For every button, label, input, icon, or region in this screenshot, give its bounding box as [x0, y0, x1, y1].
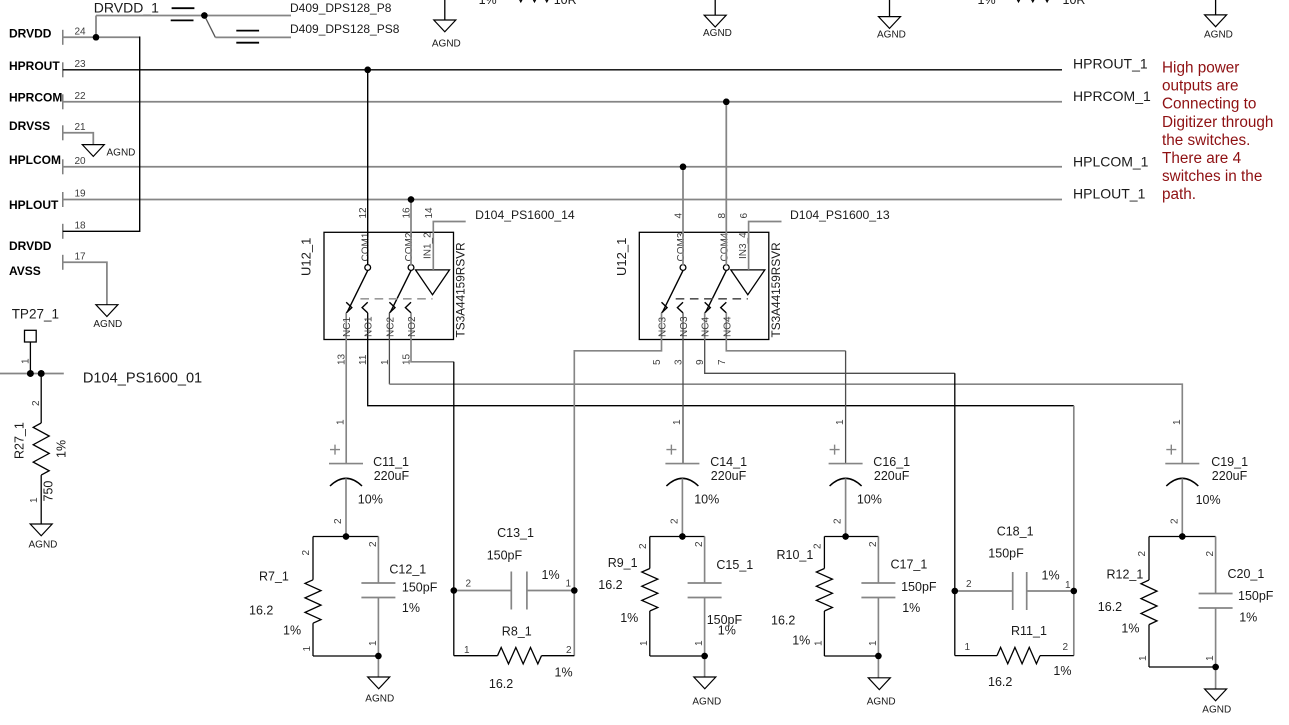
inner pin wires [345, 313, 347, 340]
junction C17_1 bottom [875, 653, 882, 660]
svg-text:TS3A44159RSVR: TS3A44159RSVR [769, 242, 783, 337]
control buffer triangle IN3_4 [731, 270, 765, 295]
svg-text:D104_PS1600_14: D104_PS1600_14 [475, 208, 575, 222]
U12_1 body outline [324, 232, 454, 339]
svg-text:2: 2 [868, 541, 879, 547]
ground AGND top 3 [877, 17, 906, 41]
svg-text:1: 1 [336, 419, 347, 425]
wire bottom rail group1 [313, 655, 378, 657]
wire NC3 vertical lower segment [573, 591, 575, 656]
svg-text:1: 1 [302, 646, 313, 652]
svg-text:1%: 1% [902, 601, 920, 615]
junction pin24/DRVDD_1 [93, 34, 100, 41]
svg-text:10%: 10% [857, 493, 882, 507]
ground AGND below C17_1 [867, 678, 896, 708]
svg-text:2: 2 [368, 541, 379, 547]
resistor R11_1 (16.2 1%) [955, 624, 1074, 689]
svg-text:AGND: AGND [1202, 705, 1231, 716]
svg-text:R12_1: R12_1 [1107, 568, 1144, 582]
svg-text:2: 2 [1137, 551, 1148, 557]
junction C13_1 pin1 [571, 587, 578, 594]
pin 17 AVSS of left IC [9, 252, 86, 279]
svg-text:1: 1 [1138, 655, 1149, 661]
wire NO2 vertical drop [453, 362, 455, 591]
svg-text:150pF: 150pF [901, 580, 937, 594]
capacitor C14_1 (220uF polarized) [665, 419, 747, 537]
svg-text:23: 23 [75, 59, 87, 70]
svg-text:DRVDD: DRVDD [9, 239, 52, 253]
svg-text:Digitizer through: Digitizer through [1162, 114, 1273, 131]
junction C20_1 bottom [1212, 664, 1219, 671]
wire NC3 to C13/R8 right [574, 340, 661, 591]
svg-text:1: 1 [368, 640, 379, 646]
svg-text:NC3: NC3 [658, 317, 669, 337]
svg-text:TS3A44159RSVR: TS3A44159RSVR [454, 242, 468, 337]
svg-text:HPRCOM: HPRCOM [9, 91, 62, 105]
svg-text:HPROUT: HPROUT [9, 59, 60, 73]
wire HPLCOM to COM3 [682, 167, 684, 265]
svg-text:2: 2 [638, 543, 649, 549]
svg-text:D409_DPS128_P8: D409_DPS128_P8 [290, 1, 392, 15]
capacitor C18_1 (150pF 1%) [955, 525, 1074, 611]
wire to D409_DPS128_P8 [204, 15, 291, 17]
resistor R27_1 [13, 374, 69, 525]
svg-text:2: 2 [1063, 642, 1069, 653]
svg-text:1: 1 [1172, 419, 1183, 425]
resistor R7_1 (16.2 1%) [249, 537, 321, 657]
svg-text:150pF: 150pF [487, 549, 523, 563]
wire to ground below C12_1 [377, 656, 379, 677]
contact arrows NC1/NO1/NC2/NO2 [346, 302, 352, 313]
capacitor C15_1 (150pF 1%) [688, 537, 754, 657]
svg-text:1%: 1% [542, 568, 560, 582]
net-tie bars on DRVDD_1 branch P8 [172, 7, 195, 9]
wire IN1_2 to D104_PS1600_14 [433, 222, 465, 270]
svg-text:220uF: 220uF [711, 469, 747, 483]
svg-text:AGND: AGND [365, 694, 394, 705]
ground AGND below R27_1 [29, 524, 58, 551]
svg-text:2: 2 [812, 543, 823, 549]
svg-text:DRVSS: DRVSS [9, 119, 50, 133]
ground AGND below C20_1 [1202, 689, 1231, 716]
svg-text:U12_1: U12_1 [299, 238, 314, 276]
pin 24 stub wire [63, 36, 96, 38]
svg-text:1%: 1% [479, 0, 497, 7]
junction HPRCOM/COM4 [723, 99, 730, 106]
svg-text:1%: 1% [978, 0, 996, 7]
wire D104_PS1600_01 from left edge [0, 373, 64, 375]
svg-text:HPLCOM_1: HPLCOM_1 [1073, 153, 1149, 169]
svg-text:HPRCOM_1: HPRCOM_1 [1073, 88, 1151, 104]
junction DRVDD_1 split [201, 12, 208, 19]
svg-text:7: 7 [717, 359, 728, 365]
svg-text:C16_1: C16_1 [873, 455, 910, 469]
svg-text:1: 1 [672, 419, 683, 425]
svg-text:D104_PS1600_13: D104_PS1600_13 [790, 208, 890, 222]
wire NO4 to C16_1 [726, 340, 845, 351]
wire rail of C16_1 group [824, 536, 878, 538]
capacitor C19_1 (220uF polarized) [1165, 419, 1248, 537]
wire NC1 to C11_1 [345, 340, 347, 464]
svg-text:16.2: 16.2 [489, 677, 513, 691]
svg-text:Connecting to: Connecting to [1162, 96, 1256, 113]
svg-text:AGND: AGND [93, 319, 122, 330]
wire pin21 DRVSS stub to ground [63, 133, 94, 145]
svg-text:C11_1: C11_1 [373, 455, 409, 469]
svg-text:NC1: NC1 [342, 317, 353, 337]
switch blade COM4 [706, 271, 727, 313]
svg-text:1: 1 [1065, 580, 1071, 591]
wire bottom rail group2 [650, 655, 705, 657]
svg-text:AGND: AGND [703, 28, 732, 39]
junction HPROUT/COM1 [364, 67, 371, 74]
svg-text:NO3: NO3 [679, 316, 690, 337]
svg-text:17: 17 [75, 252, 87, 263]
svg-text:1: 1 [639, 640, 650, 646]
dashed control link [676, 298, 748, 300]
wire bottom rail group4 [1149, 666, 1216, 668]
svg-text:14: 14 [424, 207, 435, 219]
wire HPLCOM net line pin20 to right edge [63, 166, 1062, 168]
capacitor C20_1 (150pF 1%) [1199, 537, 1274, 668]
dashed control link [360, 298, 432, 300]
capacitor C17_1 (150pF 1%) [861, 537, 937, 657]
svg-text:1%: 1% [620, 611, 638, 625]
wire to AGND top 4 [1215, 0, 1217, 15]
svg-text:AGND: AGND [29, 540, 58, 551]
svg-text:NO1: NO1 [364, 316, 375, 337]
svg-text:HPLCOM: HPLCOM [9, 153, 61, 167]
svg-text:2: 2 [31, 400, 42, 406]
pin 23 HPROUT of left IC [9, 59, 86, 77]
wire DRVDD_1 horizontal [96, 15, 204, 17]
svg-text:HPLOUT_1: HPLOUT_1 [1073, 186, 1146, 202]
wire to AGND top 2 [714, 0, 716, 15]
svg-text:C12_1: C12_1 [389, 563, 426, 577]
resistor top-right partial (1% / 10R) [978, 0, 1086, 7]
capacitor C16_1 (220uF polarized) [829, 419, 911, 537]
svg-text:AVSS: AVSS [9, 264, 41, 278]
wire to ground below C15_1 [704, 656, 706, 677]
svg-text:1%: 1% [555, 666, 573, 680]
ground AGND below C15_1 [692, 677, 721, 708]
svg-text:AGND: AGND [692, 697, 721, 708]
pin 19 HPLOUT of left IC [9, 189, 86, 212]
svg-text:5: 5 [652, 359, 663, 365]
junction R27_1 [38, 370, 45, 377]
svg-text:D409_DPS128_PS8: D409_DPS128_PS8 [290, 22, 400, 36]
svg-text:1%: 1% [55, 440, 69, 458]
capacitor C13_1 (150pF 1%) [454, 526, 575, 610]
svg-text:COM4: COM4 [719, 232, 730, 261]
svg-text:2: 2 [966, 579, 972, 590]
wire NC4 vertical drop [954, 373, 956, 591]
svg-text:1%: 1% [1042, 569, 1060, 583]
svg-text:COM1: COM1 [361, 232, 372, 261]
annotation red note [1162, 59, 1273, 203]
control buffer triangle IN1_2 [416, 270, 450, 295]
ground AGND below AVSS [93, 305, 122, 330]
svg-text:220uF: 220uF [1212, 469, 1248, 483]
capacitor C12_1 (150pF 1%) [361, 537, 437, 657]
svg-text:2: 2 [669, 518, 680, 524]
wire HPLOUT to COM2 [410, 200, 412, 266]
wire rail group4 [1149, 536, 1216, 538]
svg-text:16.2: 16.2 [1098, 600, 1122, 614]
wire to AGND top 1 [444, 0, 446, 20]
wire HPROUT net line pin23 to right edge [63, 69, 1062, 71]
wire NC4 to C18/R11 left [705, 340, 955, 374]
svg-text:1%: 1% [283, 624, 301, 638]
U12_1 body outline [639, 232, 769, 339]
svg-text:1: 1 [1205, 655, 1216, 661]
wire NO1 to C18/R11 right [368, 340, 1074, 406]
svg-text:R10_1: R10_1 [777, 548, 814, 562]
svg-text:1: 1 [868, 640, 879, 646]
svg-text:2: 2 [301, 550, 312, 556]
svg-text:There are 4: There are 4 [1162, 150, 1242, 167]
svg-text:C20_1: C20_1 [1228, 567, 1265, 581]
svg-text:16.2: 16.2 [598, 578, 622, 592]
wire DRVDD_1 vertical to pin24 [95, 16, 97, 38]
junction HPLCOM/COM3 [680, 164, 687, 171]
wire TP27_1 to net [29, 342, 31, 374]
svg-text:AGND: AGND [1204, 30, 1233, 41]
svg-text:10R: 10R [1063, 0, 1086, 7]
wire NO2 to C13/R8 left [411, 340, 454, 362]
junction C19_1 to rail [1179, 533, 1186, 540]
svg-text:IN3_4: IN3_4 [738, 232, 749, 259]
switch blade COM1 [347, 271, 368, 313]
wire to ground below C17_1 [877, 656, 879, 678]
resistor R9_1 (16.2 1%) [598, 537, 658, 657]
svg-text:6: 6 [739, 213, 750, 219]
svg-text:COM2: COM2 [404, 232, 415, 261]
svg-text:1: 1 [965, 642, 971, 653]
svg-text:COM3: COM3 [676, 232, 687, 261]
junction C14_1 to rail [679, 533, 686, 540]
svg-text:1%: 1% [1121, 622, 1139, 636]
wire NO3 to C14_1 [682, 340, 684, 464]
wire NC2 to C19_1 [388, 340, 390, 385]
junction C13_1 pin2 [451, 587, 458, 594]
svg-text:16.2: 16.2 [771, 614, 795, 628]
svg-text:R9_1: R9_1 [608, 556, 638, 570]
svg-text:150pF: 150pF [988, 547, 1024, 561]
svg-text:C13_1: C13_1 [497, 526, 534, 540]
svg-text:750: 750 [42, 481, 56, 502]
svg-text:High power: High power [1162, 59, 1239, 76]
net-tie bars on DRVDD_1 branch PS8 [236, 30, 259, 32]
svg-text:C18_1: C18_1 [997, 525, 1034, 539]
svg-text:C19_1: C19_1 [1211, 455, 1248, 469]
svg-text:150pF: 150pF [1238, 589, 1274, 603]
wire diagonal to PS8 branch [204, 16, 215, 38]
svg-text:16.2: 16.2 [249, 604, 273, 618]
wire HPRCOM to COM4 [725, 102, 727, 265]
pin 22 HPRCOM of left IC [9, 91, 86, 110]
svg-text:R7_1: R7_1 [259, 569, 289, 583]
resistor R10_1 (16.2 1%) [771, 537, 832, 657]
svg-text:path.: path. [1162, 186, 1196, 203]
switch blade COM2 [390, 271, 411, 313]
junction C11_1 to rail [343, 533, 350, 540]
wire NC4 vertical lower segment [954, 591, 956, 656]
svg-text:220uF: 220uF [374, 469, 410, 483]
svg-text:150pF: 150pF [402, 581, 438, 595]
ground AGND top 2 [703, 15, 732, 39]
svg-text:1: 1 [464, 645, 470, 656]
svg-text:1%: 1% [718, 624, 736, 638]
svg-text:2: 2 [694, 541, 705, 547]
junction TP27_1 [27, 370, 34, 377]
svg-text:HPLOUT: HPLOUT [9, 198, 59, 212]
wire NO1 vertical lower segment [1073, 591, 1075, 656]
wire bottom rail group3 [824, 655, 878, 657]
svg-text:2: 2 [1169, 518, 1180, 524]
svg-text:2: 2 [1205, 551, 1216, 557]
wire to D409_DPS128_PS8 [215, 36, 291, 38]
svg-text:outputs are: outputs are [1162, 78, 1239, 95]
switch blade COM3 [662, 271, 683, 313]
svg-text:2: 2 [566, 645, 572, 656]
ground AGND top 1 [432, 20, 461, 50]
svg-text:NO2: NO2 [407, 316, 418, 337]
wire pin17 AVSS stub to ground [63, 262, 107, 304]
wire NO1 vertical drop at right [1073, 406, 1075, 591]
svg-text:22: 22 [75, 91, 87, 102]
junction HPLOUT/COM2 [408, 196, 415, 203]
svg-text:1%: 1% [402, 601, 420, 615]
svg-text:AGND: AGND [107, 148, 136, 159]
svg-text:C14_1: C14_1 [710, 455, 747, 469]
wire rail of C11_1 group [313, 536, 378, 538]
svg-text:19: 19 [75, 189, 87, 200]
svg-text:10%: 10% [694, 493, 719, 507]
svg-text:U12_1: U12_1 [614, 238, 629, 276]
pin 24 DRVDD of left IC [9, 27, 86, 45]
wire DRVDD pin24 to pin18 [96, 36, 140, 38]
svg-text:D104_PS1600_01: D104_PS1600_01 [83, 370, 202, 386]
pin 20 HPLCOM of left IC [9, 153, 86, 174]
wire HPLOUT net line pin19 to right edge [63, 199, 1062, 201]
svg-text:10%: 10% [1196, 493, 1221, 507]
wire IN3_4 to D104_PS1600_13 [749, 222, 782, 270]
wire to ground below C20_1 [1215, 667, 1217, 689]
svg-text:1: 1 [813, 640, 824, 646]
wire rail of C14_1 group [650, 536, 705, 538]
svg-text:DRVDD_1: DRVDD_1 [94, 0, 159, 16]
wire HPROUT to COM1 [367, 70, 369, 265]
svg-text:2: 2 [333, 518, 344, 524]
svg-text:24: 24 [75, 27, 87, 38]
svg-text:AGND: AGND [877, 30, 906, 41]
svg-text:1: 1 [835, 419, 846, 425]
svg-text:R27_1: R27_1 [13, 422, 27, 459]
svg-text:10R: 10R [554, 0, 577, 7]
inner pin wires [661, 313, 663, 340]
svg-text:16.2: 16.2 [988, 675, 1012, 689]
svg-text:2: 2 [466, 578, 472, 589]
wire NO2 vertical lower segment [453, 591, 455, 656]
junction C18_1 pin1 [1071, 588, 1078, 595]
wire HPRCOM net line pin22 to right edge [63, 101, 1062, 103]
junction C18_1 pin2 [952, 588, 959, 595]
svg-text:1: 1 [694, 640, 705, 646]
svg-text:2: 2 [833, 518, 844, 524]
wire NO4 vertical drop [845, 351, 847, 464]
svg-text:C15_1: C15_1 [716, 558, 753, 572]
resistor top-left partial (1% / 10R) [479, 0, 577, 7]
capacitor C11_1 (220uF polarized) [329, 419, 410, 537]
svg-text:HPROUT_1: HPROUT_1 [1073, 55, 1148, 71]
svg-text:C17_1: C17_1 [891, 558, 928, 572]
ground AGND top 4 [1204, 15, 1233, 41]
svg-text:1%: 1% [1239, 611, 1257, 625]
svg-text:1: 1 [20, 358, 31, 364]
svg-text:AGND: AGND [432, 39, 461, 50]
svg-text:NC4: NC4 [701, 317, 712, 337]
svg-text:NO4: NO4 [722, 316, 733, 337]
svg-text:20: 20 [75, 156, 87, 167]
svg-text:18: 18 [75, 221, 87, 232]
resistor R8_1 (16.2 1%) [454, 625, 575, 692]
ground AGND below C12_1 [365, 677, 394, 705]
pin 21 DRVSS of left IC [9, 119, 86, 140]
svg-text:AGND: AGND [867, 697, 896, 708]
svg-text:switches in the: switches in the [1162, 168, 1262, 185]
testpoint TP27_1 square [25, 330, 37, 342]
svg-text:DRVDD: DRVDD [9, 27, 52, 41]
ground AGND below DRVSS [82, 145, 135, 159]
contact arrows NC3/NO3/NC4/NO4 [662, 302, 668, 313]
svg-text:1: 1 [29, 497, 40, 503]
svg-text:10%: 10% [358, 493, 383, 507]
svg-text:21: 21 [75, 122, 87, 133]
svg-text:IN1_2: IN1_2 [423, 232, 434, 259]
svg-text:1%: 1% [1053, 664, 1071, 678]
svg-text:the switches.: the switches. [1162, 132, 1250, 149]
junction C15_1 bottom [701, 653, 708, 660]
svg-text:220uF: 220uF [874, 469, 910, 483]
pin 18 DRVDD of left IC [9, 221, 86, 254]
resistor R12_1 (16.2 1%) [1098, 537, 1157, 668]
junction C12_1 bottom [375, 653, 382, 660]
svg-text:TP27_1: TP27_1 [12, 307, 59, 322]
svg-text:R8_1: R8_1 [502, 625, 532, 639]
wire to AGND top 3 [889, 0, 891, 17]
svg-text:R11_1: R11_1 [1011, 624, 1047, 638]
junction C16_1 to rail [842, 533, 849, 540]
svg-text:1: 1 [566, 578, 572, 589]
svg-text:NC2: NC2 [385, 317, 396, 337]
svg-text:1%: 1% [792, 634, 810, 648]
